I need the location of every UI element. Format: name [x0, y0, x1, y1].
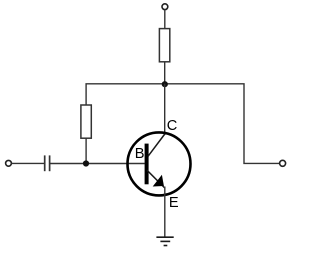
ground bar 2 [160, 240, 170, 242]
emitter arrow head [153, 175, 164, 187]
input terminal (left) [6, 160, 12, 166]
junction: base node [83, 160, 89, 166]
junction: rail / collector node [162, 81, 168, 87]
wire: emitter vertical down to ground [164, 187, 166, 238]
svg-text:E: E [169, 195, 179, 211]
transistor Q1 (NPN) body circle [128, 132, 191, 195]
resistor (base bias) [81, 105, 91, 138]
resistor (collector load) [159, 29, 169, 62]
supply terminal (top) [162, 4, 168, 10]
wire: supply terminal to collector resistor [164, 10, 166, 29]
wire: input terminal to capacitor [11, 162, 44, 164]
wire: collector resistor to supply rail [164, 62, 166, 84]
svg-text:B: B [135, 146, 145, 162]
wire: supply rail (left resistor top, across, down to output terminal) [86, 84, 280, 164]
capacitor plate (left) [44, 155, 46, 171]
ground bar 1 [156, 236, 173, 238]
svg-text:C: C [167, 118, 178, 134]
collector lead (diagonal) [148, 134, 165, 156]
wire: base resistor down to base node [85, 138, 87, 163]
capacitor plate (right) [49, 155, 51, 171]
output terminal (right) [280, 160, 286, 166]
emitter lead (diagonal) [147, 170, 164, 187]
wire: collector vertical (junction to transistor) [164, 84, 166, 135]
wire: capacitor to transistor base [50, 163, 145, 165]
ground bar 3 [164, 245, 168, 247]
transistor base bar [145, 144, 149, 185]
